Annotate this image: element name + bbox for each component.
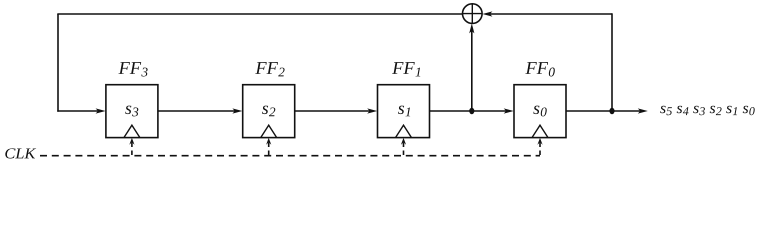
label output sequence s5 s4 s3 s2 s1 s0 [660, 106, 755, 116]
wire FF2 to FF1 with arrow [295, 108, 377, 113]
wire clock to FF1 dashed with arrow [401, 138, 406, 156]
wire xor bottom input from node A [469, 23, 474, 111]
label FF3 [119, 62, 148, 76]
xor gate U1 [463, 4, 483, 24]
label FF2 [255, 62, 284, 76]
wire FF0 output with arrow [566, 108, 648, 113]
wire clock to FF0 dashed with arrow [537, 138, 542, 156]
wire clock to FF3 dashed with arrow [129, 138, 134, 156]
label s1 [398, 106, 410, 117]
label FF0 [525, 62, 554, 76]
node B junction dot at output [609, 108, 614, 114]
label s0 [533, 106, 546, 117]
label CLK [5, 148, 36, 158]
wire feedback right vertical [611, 13, 613, 111]
wire feedback left vertical [57, 14, 59, 112]
flip-flop FF2 box [243, 85, 295, 138]
wire FF1 to FF0 with arrow [430, 108, 514, 113]
wire clock to FF2 dashed with arrow [266, 138, 271, 156]
flip-flop FF3 box [106, 85, 158, 138]
wire feedback top-left horizontal [57, 13, 462, 15]
label s3 [125, 106, 138, 117]
wire input to FF3 with arrow [57, 108, 105, 113]
flip-flop FF1 box [378, 85, 430, 138]
wire FF3 to FF2 with arrow [158, 108, 243, 113]
wire CLK dashed horizontal [40, 155, 540, 157]
flip-flop FF0 box [514, 85, 566, 138]
node A junction dot between FF1 and FF0 [469, 108, 474, 114]
wire feedback top-right horizontal with arrow into xor [482, 11, 612, 16]
label s2 [262, 106, 275, 117]
label FF1 [392, 62, 420, 76]
